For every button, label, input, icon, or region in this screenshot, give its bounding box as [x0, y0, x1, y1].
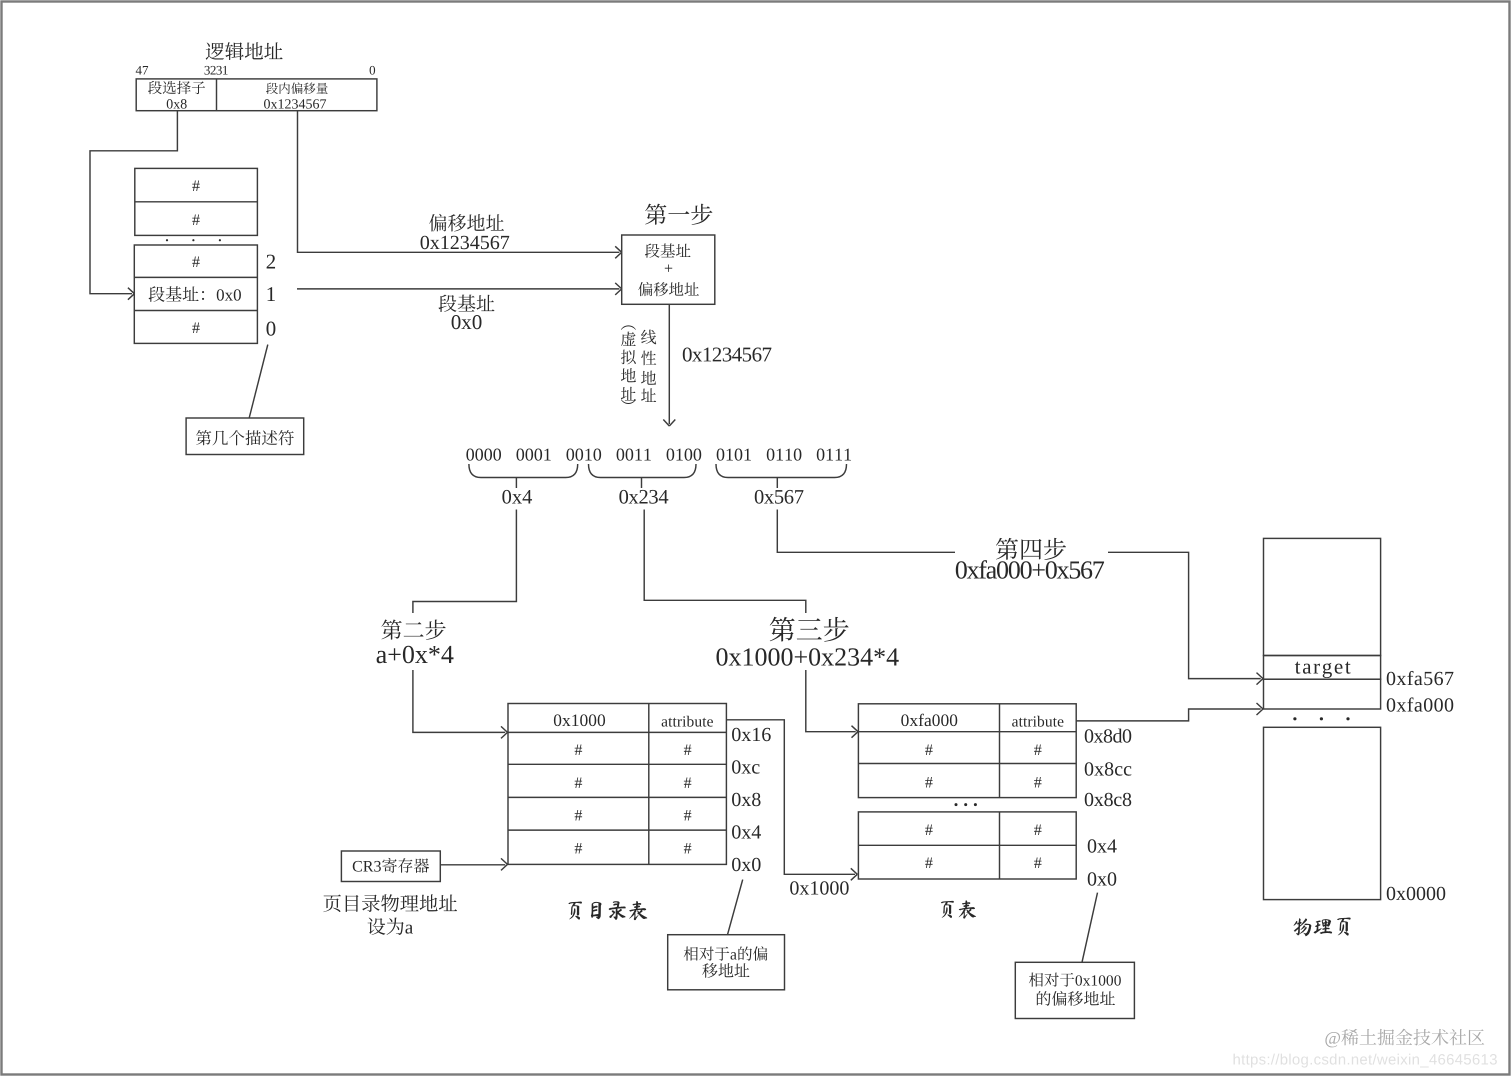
box page-table lower block [858, 812, 1076, 879]
label 0x567 [755, 490, 764, 504]
box target cell [1264, 656, 1381, 680]
box 相对于0x1000 的偏移地址 [1015, 962, 1134, 1018]
label 段选择子 0x8 [148, 81, 162, 94]
brace group table-index bits [589, 464, 697, 478]
label 第一步 (step 1) [645, 204, 666, 225]
box physical page lower region [1264, 727, 1381, 899]
label 0x234 [619, 490, 628, 504]
label 第二步 a+0x*4 (step 2) [381, 619, 401, 639]
label 0x4 [502, 490, 511, 504]
page-table offset labels [1085, 729, 1093, 743]
box cell below target [1264, 679, 1381, 709]
label 0x0000 [1387, 887, 1395, 901]
box GDT upper (two # rows) [135, 168, 258, 235]
label 段内偏移量 0x1234567 [266, 83, 278, 94]
label 0x1000 page table base [790, 881, 798, 895]
wire page-table entry to physical page 0xfa000 [1076, 709, 1261, 721]
page-table dots [955, 803, 958, 806]
box physical page upper region [1264, 538, 1381, 655]
label 页表 (page table, handwritten) [941, 901, 954, 918]
wire step1 down arrow (linear address) [668, 304, 670, 424]
wire segment-base to step1 box [297, 288, 619, 290]
wire 0x567 to physical page target [777, 510, 955, 553]
label 逻辑地址 (logical address title) [206, 42, 224, 59]
watermark 稀土掘金 [1325, 1032, 1340, 1047]
watermark csdn url [1234, 1054, 1240, 1065]
label 段基址 0x0 [438, 295, 456, 312]
box page-directory table [508, 704, 726, 865]
label 偏移地址 0x1234567 [429, 214, 446, 232]
wire 0x234 to page table [644, 510, 806, 614]
physical page dots [1293, 717, 1296, 720]
wire pagedir entry to page-table base 0x1000 [726, 720, 855, 875]
wire offset to step1 box [298, 111, 620, 253]
label 段基址：0x0 (segment base) [149, 286, 165, 302]
label 0x1234567 linear address value [683, 347, 692, 361]
binary expansion of linear address [466, 449, 474, 461]
row index labels 2 1 0 [267, 255, 275, 269]
wire pagetable 0x0 to note box [1082, 893, 1098, 963]
bit numbers 32 31 [205, 66, 210, 75]
wire pagedir 0x0 to note box [728, 880, 743, 935]
brace group directory-index bits [469, 464, 578, 478]
label 0xfa000 entry + attribute header [901, 714, 908, 726]
label 0x1000 entry + attribute header [554, 714, 561, 726]
wire CR3 to page-directory [440, 864, 505, 866]
box CR3 register [341, 851, 440, 882]
box step1 段基址+偏移地址 [622, 235, 715, 304]
box 相对于a的偏移地址 (offset relative to a) [668, 935, 785, 990]
vertical label （虚拟地址 线性地址） [621, 325, 636, 330]
box GDT lower (rows 2,1,0) [134, 245, 257, 343]
ellipsis dots between GDT boxes [166, 239, 168, 241]
labels 0xfa567 0xfa000 [1387, 672, 1395, 686]
brace group offset bits [716, 464, 847, 478]
label 第四步 0xfa000+0x567 (step 4) [996, 538, 1018, 560]
label 页目录物理地址 设为a [323, 895, 340, 913]
wire 0x4 to page-directory table [413, 510, 517, 614]
label 页目录表 (page directory table, handwritten) [568, 902, 581, 920]
bit number 47 [136, 66, 142, 75]
label 物理页 (physical page, handwritten) [1294, 918, 1312, 936]
box page-table upper block [858, 704, 1076, 798]
box 第几个描述符 (which descriptor) [186, 418, 304, 455]
wire selector to GDT entry 1 [90, 111, 177, 294]
wire index-0 to descriptor note box [249, 345, 267, 418]
label 第三步 0x1000+0x234*4 (step 3) [770, 617, 795, 642]
bit number 0 [370, 66, 376, 75]
page-directory offset labels 0x16 0xc 0x8 0x4 0x0 [732, 728, 740, 742]
box logical-address (segment selector | offset) [136, 79, 377, 111]
